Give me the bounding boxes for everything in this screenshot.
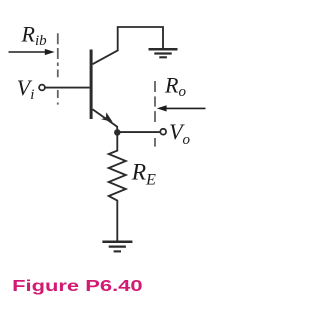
svg-text:Vi: Vi [17,75,35,103]
svg-text:Vo: Vo [169,119,190,148]
svg-text:Ro: Ro [164,72,186,100]
svg-text:RE: RE [131,160,156,189]
svg-text:Rib: Rib [21,21,48,49]
svg-text:Figure P6.40: Figure P6.40 [12,278,143,295]
